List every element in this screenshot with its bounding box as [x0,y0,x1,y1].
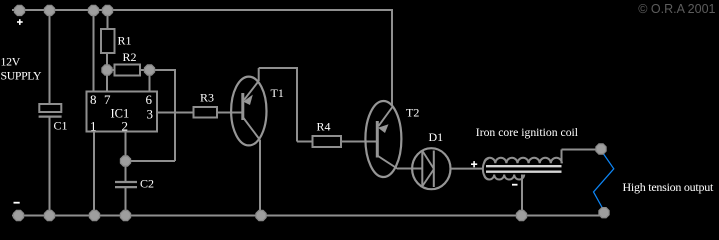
wire junction to IC pin7 [106,70,108,92]
wire C1 branch from top rail [49,10,51,105]
transformer ignition coil secondary winding (top) [484,158,562,164]
svg-text:6: 6 [146,92,153,107]
wire secondary top to HT terminal [561,150,563,164]
wire T1 collector up [258,68,260,81]
resistor R3 [194,107,218,118]
transformer ignition coil primary winding (bottom) [484,175,524,180]
node HT top junction [596,144,606,154]
wire D1 to ignition coil [451,168,484,170]
node ground rail T1 emitter junction [256,210,266,220]
wire C1 to ground rail [49,116,51,215]
wire down to R4 level [296,67,298,142]
svg-text:8: 8 [90,92,97,107]
node ground rail pin1 junction [89,210,99,220]
transistor T2 [365,101,401,177]
spark gap blue zigzag (high tension output) [594,151,614,210]
wire IC pin3 to R3 [157,112,194,114]
resistor R1 [101,29,115,53]
resistor R2 [115,65,141,76]
node ground rail HT bottom junction [599,208,609,218]
svg-text:12V: 12V [1,54,21,68]
svg-text:© O.R.A 2001: © O.R.A 2001 [638,2,715,16]
node - coil primary negative [512,184,518,186]
wire C2 to ground rail [125,188,127,215]
wire R2 right lead [140,69,150,71]
diode D1 [412,148,450,189]
node R2 pin6 junction [144,65,154,75]
svg-text:T1: T1 [271,86,284,100]
wire pin6 junction over to pin2 net (right) [150,69,176,71]
wire T1 emitter to ground rail [259,140,261,215]
node top rail R1 junction [102,5,112,15]
wire R2 right junction to IC pin6 [149,70,151,92]
op-amp IC1 box (555 timer) [87,92,158,132]
wire to HT top node [562,149,602,151]
wire R3 to T1 base [217,112,242,114]
wire T1 collector horizontal [259,67,297,69]
wire T2 emitter to D1 [398,168,422,170]
transformer iron core lines [486,166,562,172]
wire IC pin8 branch from top rail [93,10,95,92]
power terminal - label (12V supply negative) [14,202,20,204]
power terminal + label (12V supply positive) [17,19,23,25]
svg-text:R2: R2 [123,50,137,64]
node ground rail C1 junction [44,210,54,220]
transformer ignition coil left end cap [483,158,489,179]
wire R4 to T2 base [341,141,377,143]
svg-text:C1: C1 [54,119,68,133]
node ground rail C2 junction [120,210,130,220]
svg-text:C2: C2 [140,177,154,191]
wire R1 branch from top rail [107,10,109,29]
svg-text:1: 1 [90,119,97,134]
wire pin2 net vertical [174,69,176,161]
wire R2 left lead [107,69,115,71]
wire bottom ground rail [12,215,604,217]
wire R1 bottom to junction [106,53,108,70]
wire IC pin2 down to junction [125,132,127,162]
node pin2 C2 junction [120,156,130,166]
wire T2 collector drop from top rail [391,9,393,106]
svg-text:High tension output: High tension output [623,180,714,194]
node top rail terminal [14,5,24,15]
svg-text:7: 7 [104,92,111,107]
svg-text:T2: T2 [406,106,419,120]
node ground rail coil junction [516,210,526,220]
svg-text:3: 3 [147,106,154,121]
wire pin2 junction down to C2 [125,161,127,181]
svg-text:2: 2 [122,119,129,134]
node R1 R2 pin7 junction [102,65,112,75]
svg-text:SUPPLY: SUPPLY [1,69,42,83]
capacitor C1 (electrolytic: box plate + bar plate) [39,104,62,117]
capacitor C2 [115,182,137,187]
wire into R4 [297,141,313,143]
wire top supply rail [12,9,392,11]
svg-text:R1: R1 [118,33,132,47]
resistor R4 [313,136,342,147]
wire pin2 net horizontal into pin2 junction [126,160,176,162]
node top rail pin8 junction [88,5,98,15]
node ground rail terminal [13,210,23,220]
wire IC pin1 to ground rail [93,132,95,216]
node + coil primary positive [471,161,477,167]
svg-text:R4: R4 [317,119,331,133]
node top rail C1 junction [44,5,54,15]
svg-text:R3: R3 [200,91,214,105]
svg-text:D1: D1 [429,130,444,144]
transistor T1 [231,77,266,146]
svg-text:Iron core ignition coil: Iron core ignition coil [476,126,579,139]
wire coil primary to ground rail [521,175,523,216]
